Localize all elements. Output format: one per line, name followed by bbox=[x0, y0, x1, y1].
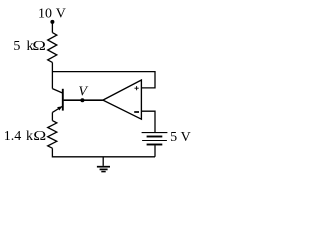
ground bar 1 bbox=[97, 166, 110, 168]
node dot top terminal bbox=[50, 20, 54, 24]
wire emitter to R2 bbox=[51, 112, 53, 120]
op-amp minus symbol bbox=[134, 111, 139, 113]
battery B1 plate 4 short thick bbox=[147, 144, 163, 146]
transistor Q1 emitter lead bbox=[52, 106, 62, 112]
node V dot bbox=[80, 98, 84, 102]
ground bar 2 bbox=[100, 168, 108, 170]
svg-text:5 k: 5 k bbox=[13, 39, 33, 54]
svg-text:V: V bbox=[78, 85, 88, 100]
wire op-amp - input to battery bbox=[142, 111, 155, 132]
transistor Q1 emitter arrow (PNP, points to bar) bbox=[57, 106, 62, 110]
svg-text:10 V: 10 V bbox=[38, 7, 66, 22]
svg-text:Ω: Ω bbox=[32, 38, 46, 54]
resistor R2 1.4 kOhm zigzag bbox=[48, 121, 57, 149]
transistor Q1 collector lead bbox=[52, 89, 62, 94]
ground stub bbox=[102, 157, 104, 166]
battery B1 plate 3 long bbox=[142, 140, 167, 142]
wire top rail to op-amp + input bbox=[52, 72, 155, 88]
transistor Q1 base bar bbox=[62, 89, 64, 111]
battery B1 plate 1 long bbox=[142, 132, 168, 134]
resistor R1 5 kOhm zigzag bbox=[48, 33, 57, 63]
ground bar 3 bbox=[101, 171, 105, 173]
op-amp U1 triangle bbox=[103, 80, 141, 119]
svg-text:1.4 k: 1.4 k bbox=[4, 129, 33, 144]
svg-text:Ω: Ω bbox=[33, 128, 46, 143]
wire base lead to op-amp output bbox=[64, 99, 103, 101]
wire R2 bottom to bottom rail bbox=[52, 148, 155, 157]
svg-text:5 V: 5 V bbox=[170, 130, 191, 145]
battery B1 plate 2 short thick bbox=[147, 136, 163, 138]
op-amp plus symbol bbox=[134, 86, 138, 90]
wire R1 bottom to collector corner (left rail) bbox=[51, 62, 53, 88]
wire top terminal to resistor R1 bbox=[51, 22, 53, 33]
wire battery bottom to bottom rail bbox=[154, 145, 156, 156]
